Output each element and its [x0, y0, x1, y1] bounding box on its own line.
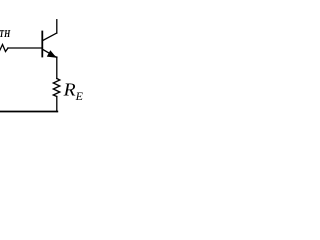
wire collector	[56, 20, 58, 33]
svg-text:E: E	[75, 89, 84, 103]
wire RE bottom lead	[56, 97, 58, 112]
resistor RE zigzag	[53, 79, 60, 97]
wire bottom rail	[0, 111, 57, 113]
wire base	[8, 47, 42, 49]
transistor Q1 base bar	[41, 32, 43, 57]
transistor Q1 emitter diagonal	[43, 50, 57, 58]
svg-text:R: R	[63, 79, 76, 99]
transistor Q1 emitter arrow	[48, 51, 56, 57]
svg-text:TH: TH	[0, 28, 11, 40]
transistor Q1 collector diagonal	[43, 33, 57, 41]
wire emitter	[56, 57, 58, 79]
resistor RTH (partial, cut off at left edge)	[0, 45, 8, 53]
